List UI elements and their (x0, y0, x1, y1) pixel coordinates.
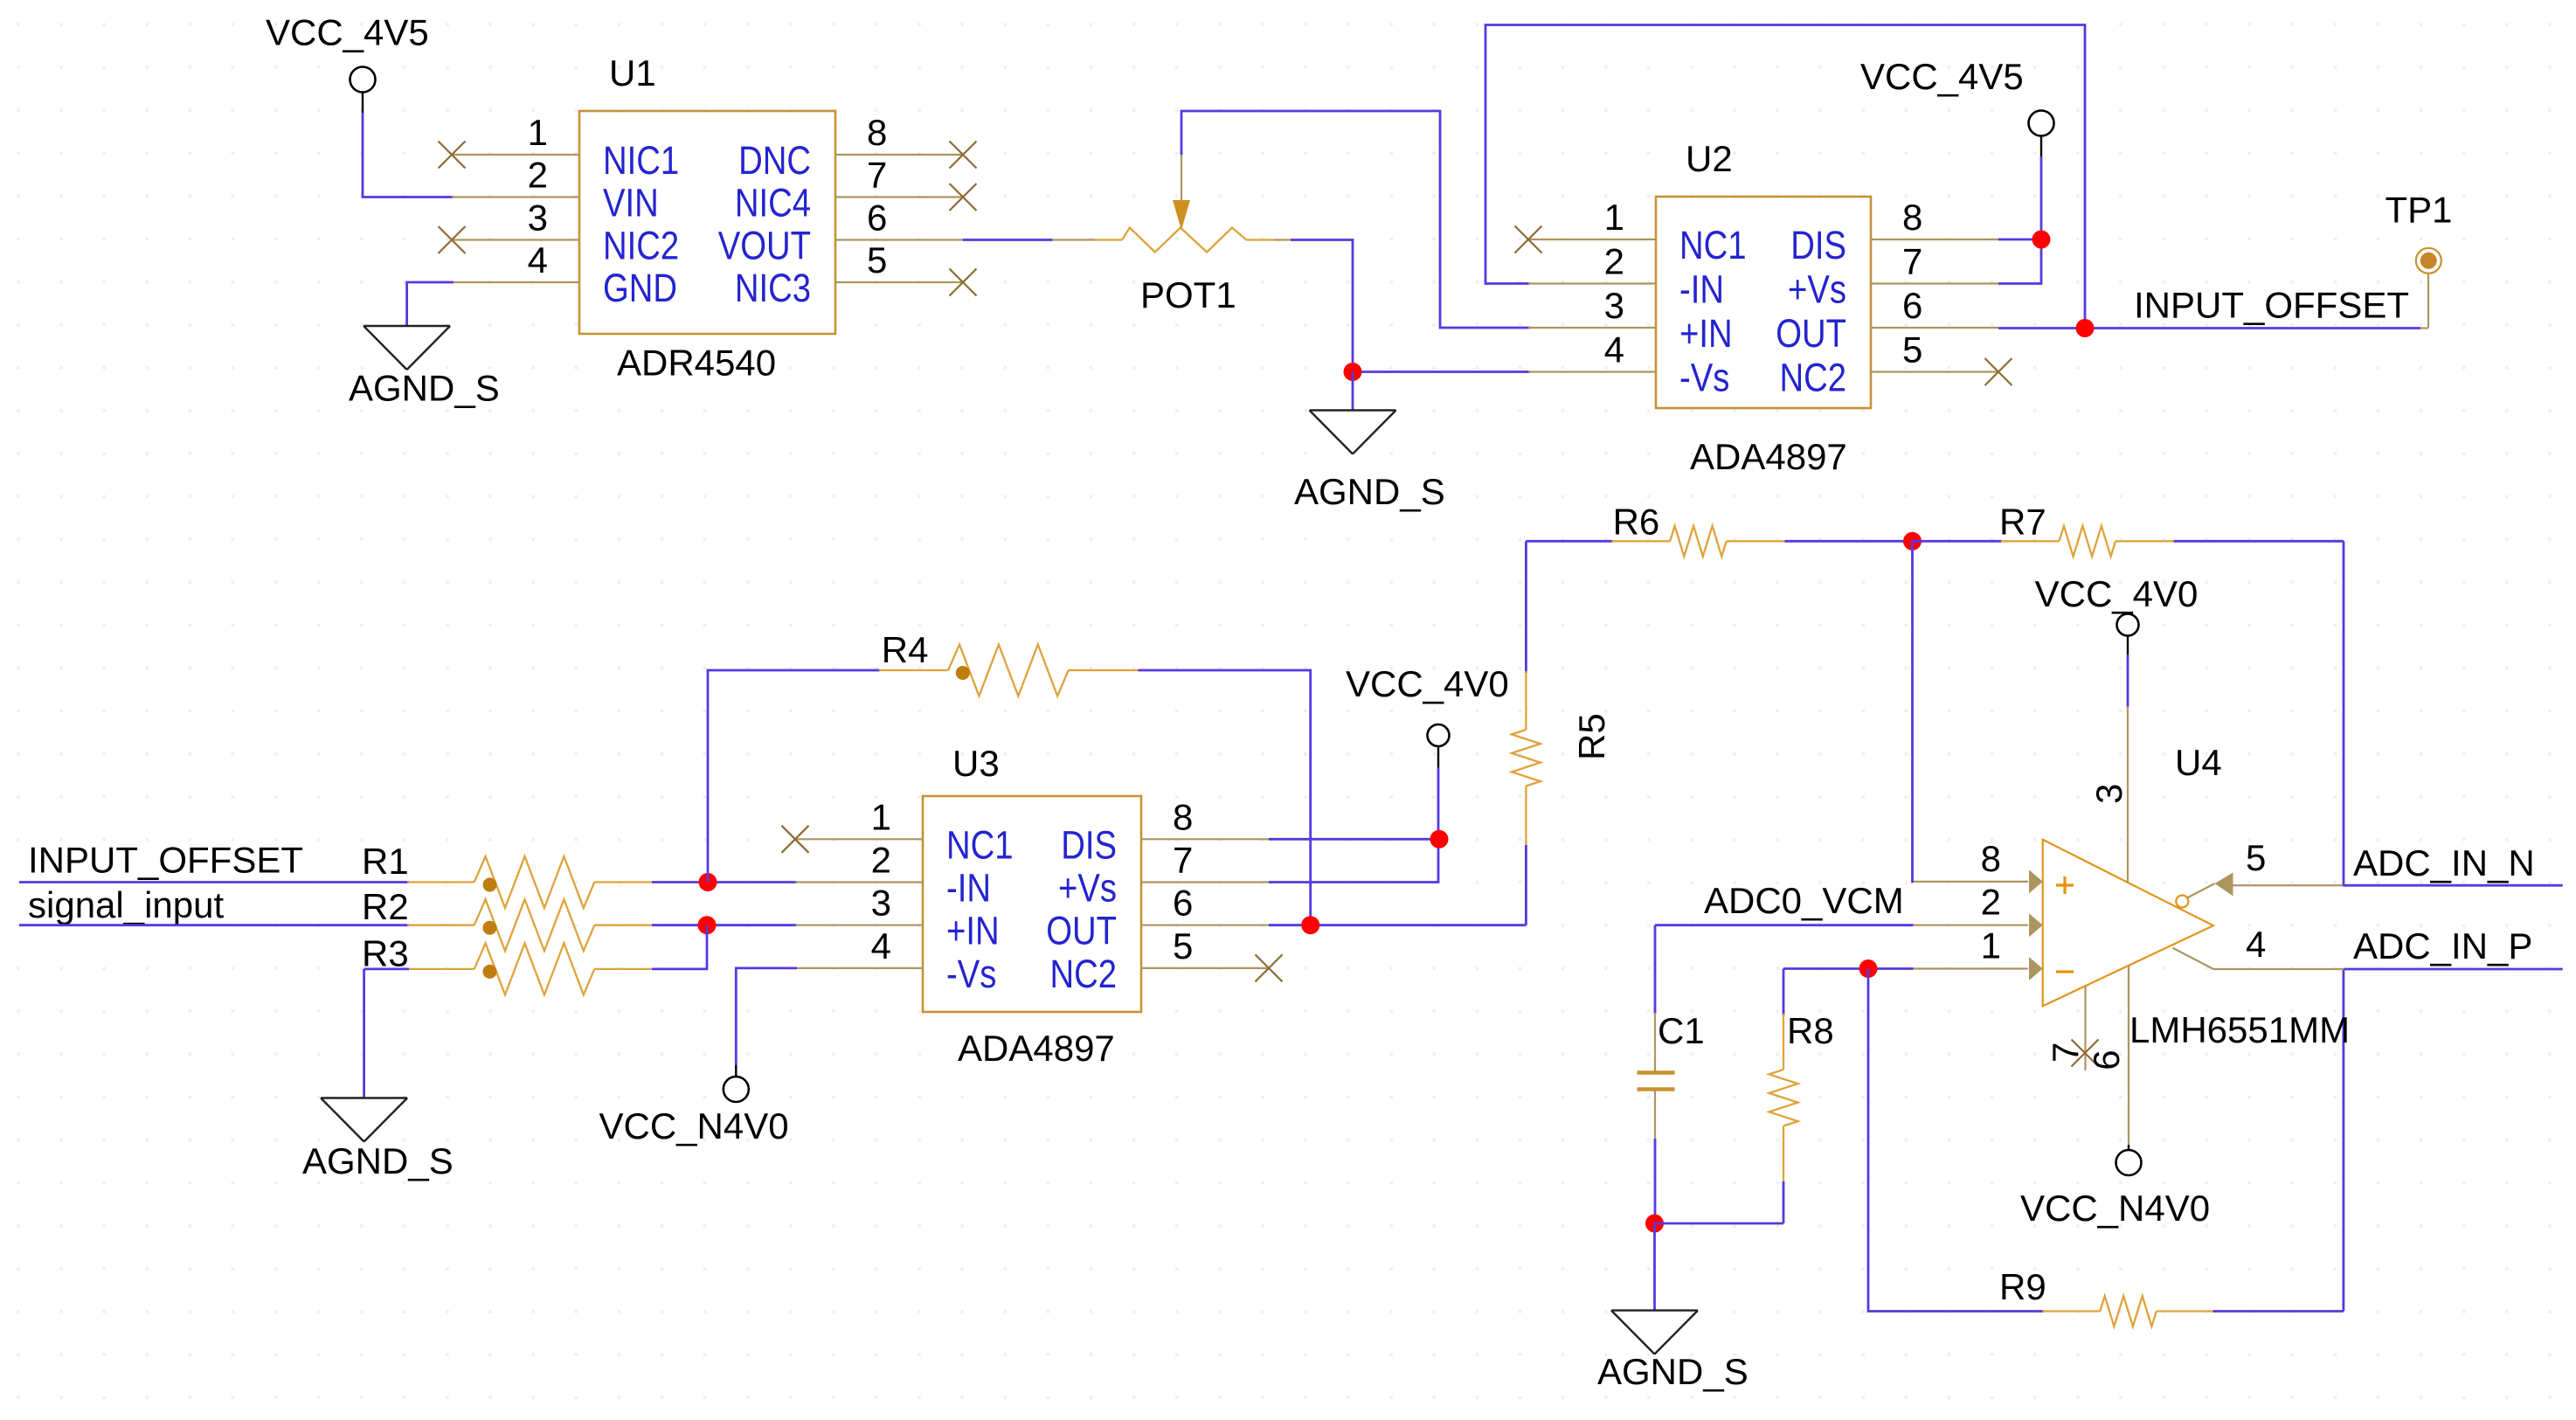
IC U1 ADR4540 (452, 52, 963, 384)
svg-text:R2: R2 (362, 886, 409, 927)
junction R2 / R3 node (698, 916, 717, 934)
svg-text:4: 4 (528, 239, 548, 281)
svg-text:7: 7 (1902, 241, 1922, 282)
svg-text:INPUT_OFFSET: INPUT_OFFSET (28, 840, 303, 881)
svg-text:5: 5 (1173, 925, 1193, 966)
resistor R9 (1868, 969, 2344, 1327)
svg-text:signal_input: signal_input (28, 884, 225, 925)
net label signal_input (28, 884, 225, 925)
svg-text:C1: C1 (1658, 1010, 1705, 1051)
no-connect X on U1 pin 5 (950, 269, 977, 296)
wire VCC_4V0 to U4 pin3 (2127, 655, 2129, 708)
resistor R5 (vertical) (1512, 541, 1612, 925)
net label INPUT_OFFSET (right) (2134, 285, 2409, 326)
svg-text:VIN: VIN (603, 181, 659, 225)
svg-text:1: 1 (871, 796, 891, 837)
wire R9 up to ADC_IN_P (2342, 969, 2344, 1312)
svg-text:POT1: POT1 (1140, 274, 1236, 315)
resistor R2 (362, 886, 654, 951)
svg-text:2: 2 (1604, 241, 1624, 282)
svg-text:R4: R4 (882, 629, 929, 670)
power VCC_4V5 (left, feeds U1 VIN) (266, 12, 429, 114)
svg-text:NIC2: NIC2 (603, 224, 679, 268)
wire net ADC0_VCM to U4 pin2 (1655, 924, 1914, 926)
U4 pin 1 (- input) (1914, 925, 2043, 981)
svg-text:3: 3 (528, 197, 548, 239)
svg-text:7: 7 (867, 155, 887, 196)
svg-text:R5: R5 (1571, 713, 1612, 760)
svg-text:3: 3 (871, 883, 891, 924)
svg-text:8: 8 (1981, 838, 2001, 879)
no-connect X on U1 pin 8 (950, 142, 977, 169)
svg-text:+IN: +IN (946, 909, 1000, 953)
svg-text:AGND_S: AGND_S (1294, 471, 1445, 512)
potentiometer POT1 (1052, 155, 1291, 315)
svg-text:R1: R1 (362, 841, 409, 882)
ground AGND_S (under U1) (349, 326, 500, 409)
svg-text:NIC3: NIC3 (735, 266, 811, 310)
wire junction to ground (1653, 1223, 1656, 1311)
power VCC_N4V0 (under U3) (599, 1077, 789, 1146)
svg-text:DIS: DIS (1790, 223, 1846, 267)
svg-text:1: 1 (1604, 197, 1624, 238)
junction at U3 OUT / R4 (1301, 916, 1319, 934)
resistor R1 (362, 841, 654, 908)
U4 pin 5 / net ADC_IN_N (2215, 837, 2563, 897)
no-connect X on U1 pin 7 (950, 184, 977, 211)
svg-text:3: 3 (2088, 784, 2129, 804)
wire VCC_4V5 to U1 pin2 VIN (363, 113, 454, 197)
svg-text:8: 8 (1173, 796, 1193, 837)
op-amp U4 LMH6551MM (2043, 742, 2350, 1050)
svg-text:NC2: NC2 (1049, 952, 1117, 996)
svg-text:R9: R9 (1999, 1266, 2046, 1307)
svg-text:4: 4 (2246, 924, 2266, 965)
svg-text:DIS: DIS (1061, 822, 1117, 867)
svg-text:U1: U1 (609, 52, 656, 94)
svg-text:-Vs: -Vs (1679, 356, 1729, 400)
svg-text:VCC_4V0: VCC_4V0 (2035, 573, 2199, 614)
svg-text:R8: R8 (1787, 1010, 1834, 1051)
svg-text:6: 6 (1902, 285, 1922, 326)
net label INPUT_OFFSET (left) (28, 840, 303, 881)
svg-text:5: 5 (867, 239, 887, 281)
svg-text:NC1: NC1 (1679, 223, 1747, 267)
svg-text:ADA4897: ADA4897 (1690, 436, 1847, 477)
svg-text:2: 2 (1981, 882, 2001, 923)
net label ADC0_VCM (1704, 880, 1904, 921)
svg-text:VOUT: VOUT (718, 224, 811, 268)
svg-text:4: 4 (1604, 329, 1624, 371)
no-connect X on U3 pin 1 (782, 826, 809, 853)
svg-text:3: 3 (1604, 285, 1624, 326)
wire net signal_input into R2 (19, 924, 409, 926)
svg-text:ADC_IN_N: ADC_IN_N (2353, 842, 2535, 883)
svg-text:8: 8 (1902, 197, 1922, 238)
svg-text:R6: R6 (1613, 502, 1660, 543)
svg-text:VCC_N4V0: VCC_N4V0 (599, 1105, 789, 1146)
svg-text:2: 2 (528, 155, 548, 196)
svg-text:ADC0_VCM: ADC0_VCM (1704, 880, 1904, 921)
U4 pin 4 / net ADC_IN_P (2172, 924, 2562, 969)
wire R1 node up to R4 (708, 670, 880, 883)
svg-text:5: 5 (2246, 837, 2266, 878)
svg-text:NC2: NC2 (1779, 356, 1846, 400)
svg-text:1: 1 (1981, 925, 2001, 966)
U4 pin 7 (NC) (2045, 986, 2086, 1070)
svg-text:ADC_IN_P: ADC_IN_P (2353, 925, 2532, 966)
wire R6/R7 node down to U4 pin8 (1913, 541, 1915, 882)
ground AGND_S (under C1) (1597, 1311, 1748, 1392)
junction R1 / R4 node (699, 873, 717, 891)
wire POT1 right to junction and U2 pin4 -Vs (1291, 240, 1530, 372)
svg-text:AGND_S: AGND_S (302, 1140, 454, 1181)
svg-text:+Vs: +Vs (1788, 267, 1846, 312)
resistor R6 (1526, 502, 1912, 557)
svg-text:+Vs: +Vs (1058, 866, 1117, 911)
wire U3 pin4 -Vs to VCC_N4V0 (736, 968, 797, 1077)
svg-text:-IN: -IN (1679, 267, 1724, 312)
wire POT1 wiper to U2 pin3 +IN (1181, 111, 1530, 328)
svg-text:AGND_S: AGND_S (349, 368, 500, 409)
power VCC_4V0 (feeds U3 DIS and +Vs) (1346, 663, 1509, 768)
test point TP1 (2386, 190, 2453, 329)
wire R3 to ground (363, 969, 365, 1098)
wire R3 left + right legs (364, 925, 707, 969)
junction at U2 pin8 DIS (2032, 231, 2051, 249)
wire ADC0_VCM down to C1 (1654, 925, 1657, 1014)
svg-text:NIC4: NIC4 (735, 181, 811, 225)
resistor R8 (vertical) (1769, 969, 1834, 1224)
svg-text:VCC_N4V0: VCC_N4V0 (2020, 1188, 2210, 1229)
svg-text:-Vs: -Vs (946, 952, 996, 996)
ground AGND_S (under R3) (302, 1098, 454, 1182)
svg-text:6: 6 (2086, 1049, 2127, 1070)
svg-text:ADR4540: ADR4540 (617, 343, 776, 384)
svg-text:OUT: OUT (1776, 311, 1846, 356)
junction at U3 pin8 DIS (1430, 830, 1449, 849)
no-connect X on U2 pin 5 (1985, 358, 2012, 385)
svg-text:-IN: -IN (946, 866, 991, 911)
junction U4 pin1 / R8 / R9 (1859, 959, 1878, 978)
svg-text:NC1: NC1 (946, 822, 1014, 867)
ground AGND_S (under POT1) (1294, 411, 1445, 513)
svg-text:DNC: DNC (738, 138, 811, 183)
wire C1 to ground junction (1654, 1139, 1657, 1223)
U4 pin 2 (middle input) (1914, 882, 2043, 938)
resistor R7 (1913, 502, 2344, 557)
svg-text:INPUT_OFFSET: INPUT_OFFSET (2134, 285, 2409, 326)
no-connect X on U1 pin 3 (439, 226, 466, 253)
no-connect X on U2 pin 1 (1515, 226, 1542, 253)
svg-text:VCC_4V5: VCC_4V5 (1860, 56, 2024, 97)
resistor R3 (362, 933, 654, 995)
svg-text:LMH6551MM: LMH6551MM (2129, 1009, 2350, 1050)
svg-text:8: 8 (867, 112, 887, 153)
wire R2 to U3 pin3 +IN (652, 924, 797, 926)
wire R4 right to U3 OUT junction (1139, 670, 1311, 925)
svg-text:TP1: TP1 (2386, 190, 2453, 231)
wire U4 pin1 node (1783, 967, 1914, 970)
svg-text:U4: U4 (2175, 742, 2222, 783)
wire VCC_4V0 to U3 pins 8 and 7 (1269, 768, 1439, 883)
wire R8 bottom to C1 junction (1655, 1223, 1784, 1225)
svg-text:1: 1 (528, 112, 548, 153)
svg-text:4: 4 (871, 925, 891, 966)
wire U1 GND to ground (407, 282, 454, 326)
svg-text:7: 7 (1173, 840, 1193, 881)
svg-text:VCC_4V5: VCC_4V5 (266, 12, 429, 53)
no-connect X on U4 pin 7 (2072, 1040, 2099, 1067)
U4 pin 3 (V+) (2088, 706, 2129, 883)
junction at POT1 ground node (1344, 363, 1362, 381)
no-connect X on U3 pin 5 (1256, 954, 1283, 981)
svg-text:NIC1: NIC1 (603, 138, 679, 183)
wire R7 down to ADC_IN_N (2343, 541, 2345, 885)
svg-text:5: 5 (1902, 329, 1922, 371)
wire junction to ground (1352, 372, 1354, 411)
U4 pin 6 (V-) (2086, 966, 2129, 1150)
no-connect X on U1 pin 1 (439, 142, 466, 169)
power VCC_N4V0 (under U4) (2020, 1150, 2210, 1229)
junction at U2 OUT (2076, 319, 2095, 337)
svg-text:GND: GND (603, 266, 677, 310)
svg-text:VCC_4V0: VCC_4V0 (1346, 663, 1509, 704)
feedback wire U2 OUT to U2 pin2 -IN (1485, 25, 2085, 329)
wire R1 to U3 pin2 -IN (652, 881, 797, 883)
power VCC_4V5 (feeds U2 DIS and +Vs) (1860, 56, 2054, 156)
svg-text:AGND_S: AGND_S (1597, 1351, 1748, 1392)
junction R6/R7 node (1903, 532, 1922, 551)
U4 pin 8 (+ input) (1914, 838, 2043, 894)
svg-text:+IN: +IN (1679, 311, 1733, 356)
power VCC_4V0 (feeds U4 pin3) (2035, 573, 2199, 655)
resistor R4 (879, 629, 1139, 696)
wire U1 VOUT to POT1 (963, 239, 1053, 241)
wire VCC_4V5 to U2 pins 8 and 7 (1998, 156, 2041, 284)
svg-text:6: 6 (1173, 883, 1193, 924)
wire U2 OUT / net INPUT_OFFSET to TP1 (1998, 327, 2428, 329)
svg-text:U2: U2 (1686, 138, 1733, 179)
wire net INPUT_OFFSET into R1 (19, 881, 409, 883)
svg-text:OUT: OUT (1046, 909, 1117, 953)
svg-text:2: 2 (871, 840, 891, 881)
U4 pin 5 output bubble (2176, 883, 2214, 908)
IC U3 ADA4897 (795, 743, 1269, 1069)
junction C1/R8 ground node (1645, 1215, 1664, 1233)
IC U2 ADA4897 (1528, 138, 1998, 477)
capacitor C1 (1638, 1010, 1705, 1139)
wire U3 OUT to R5/R6 riser (1269, 924, 1526, 926)
svg-text:R7: R7 (1999, 502, 2046, 543)
svg-text:6: 6 (867, 197, 887, 239)
svg-text:ADA4897: ADA4897 (958, 1028, 1115, 1069)
svg-text:U3: U3 (952, 743, 1000, 784)
